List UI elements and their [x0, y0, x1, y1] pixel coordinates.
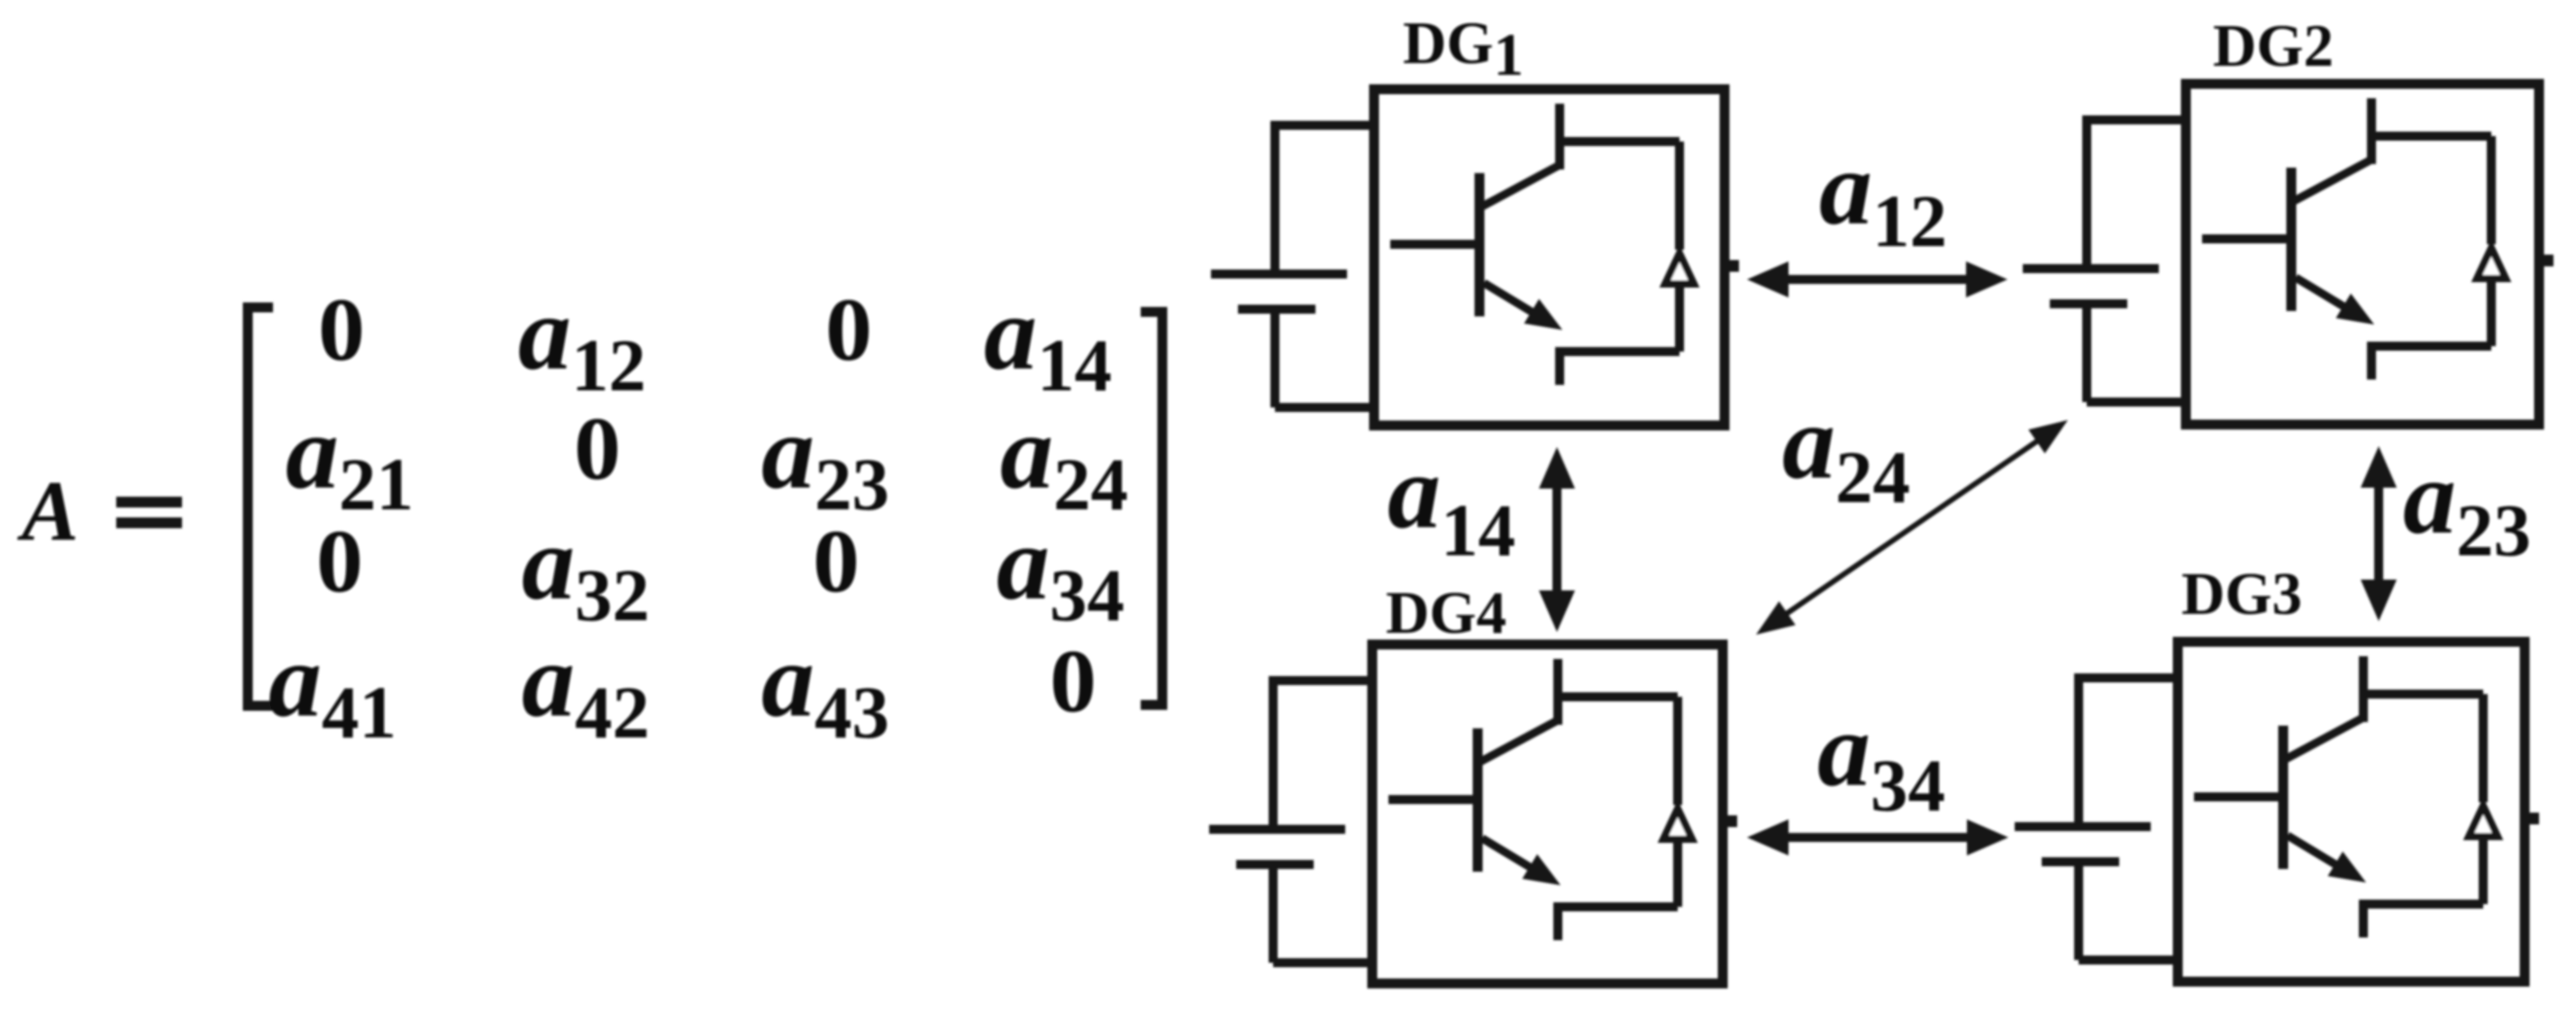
svg-text:0: 0 — [574, 398, 621, 498]
svg-text:a41: a41 — [269, 621, 396, 754]
svg-text:0: 0 — [825, 279, 872, 379]
diode D4 (DG4) — [1553, 697, 1692, 907]
wire: C2 loop to DG2 box — [2087, 115, 2189, 402]
matrix entry (4,3) = a43 — [761, 621, 889, 754]
svg-text:DG4: DG4 — [1386, 580, 1506, 646]
matrix entry (3,1) = 0 — [316, 511, 363, 611]
svg-text:DG2: DG2 — [2213, 13, 2334, 79]
matrix symbol A — [17, 463, 78, 559]
matrix entry (2,4) = a24 — [1000, 393, 1128, 526]
svg-text:a14: a14 — [984, 274, 1112, 407]
DG4 label — [1386, 580, 1506, 646]
node: DG1 output stub — [1725, 261, 1739, 272]
svg-text:a34: a34 — [1817, 690, 1945, 827]
label a12 — [1819, 129, 1947, 262]
diode D1 (DG1) — [1555, 142, 1694, 352]
wire: link a24 (DG2-DG4 double arrow) — [1756, 420, 2068, 635]
wire: link a14 (DG1-DG4 double arrow) — [1539, 447, 1575, 632]
node: DG2 output stub — [2539, 255, 2553, 267]
svg-text:a32: a32 — [522, 504, 650, 636]
svg-text:0: 0 — [316, 511, 363, 611]
label a34 — [1817, 690, 1945, 827]
transistor Q3 (DG3) — [2194, 656, 2366, 937]
wire: C3 loop to DG3 box — [2079, 673, 2181, 960]
capacitor C2 (DG2) — [2023, 269, 2159, 304]
transistor Q4 (DG4) — [1388, 659, 1561, 940]
matrix entry (4,1) = a41 — [269, 621, 396, 754]
svg-text:a43: a43 — [761, 621, 889, 754]
matrix entry (2,1) = a21 — [286, 393, 414, 526]
DG3 label — [2181, 561, 2302, 627]
svg-text:a42: a42 — [522, 621, 650, 754]
capacitor C1 (DG1) — [1211, 274, 1347, 309]
label a14 — [1388, 433, 1516, 572]
DG1 converter box — [1374, 89, 1725, 425]
svg-text:a23: a23 — [761, 393, 889, 526]
DG2 label — [2213, 13, 2334, 79]
matrix entry (3,4) = a34 — [997, 504, 1124, 636]
matrix entry (3,3) = 0 — [813, 511, 860, 611]
svg-text:a14: a14 — [1388, 433, 1516, 572]
matrix entry (1,1) = 0 — [318, 279, 365, 379]
DG1 label — [1403, 10, 1524, 88]
svg-text:0: 0 — [318, 279, 365, 379]
DG4 converter box — [1372, 645, 1723, 983]
diode D2 (DG2) — [2367, 136, 2506, 346]
wire: C4 loop to DG4 box — [1273, 676, 1376, 963]
node: DG4 output stub — [1723, 816, 1737, 828]
matrix entry (2,2) = 0 — [574, 398, 621, 498]
node: DG3 output stub — [2525, 813, 2539, 825]
transistor Q2 (DG2) — [2202, 98, 2374, 379]
svg-text:a21: a21 — [286, 393, 414, 526]
matrix left bracket — [248, 307, 273, 706]
matrix entry (1,2) = a12 — [518, 274, 646, 407]
wire: link a12 (DG1-DG2 double arrow) — [1747, 261, 2007, 297]
svg-text:0: 0 — [1050, 631, 1097, 731]
label a23 — [2403, 438, 2531, 572]
matrix entry (4,2) = a42 — [522, 621, 650, 754]
label a24 — [1782, 383, 1910, 518]
diode D3 (DG3) — [2359, 694, 2498, 904]
matrix entry (3,2) = a32 — [522, 504, 650, 636]
DG3 converter box — [2178, 642, 2525, 982]
svg-text:A: A — [17, 463, 78, 559]
equals sign — [116, 497, 182, 528]
transistor Q1 (DG1) — [1390, 104, 1562, 385]
wire: link a34 (DG4-DG3 double arrow) — [1747, 819, 2008, 855]
wire: link a23 (DG2-DG3 double arrow) — [2361, 446, 2397, 621]
matrix right bracket — [1141, 312, 1162, 705]
DG2 converter box — [2186, 84, 2539, 425]
svg-text:a23: a23 — [2403, 438, 2531, 572]
matrix entry (2,3) = a23 — [761, 393, 889, 526]
wire: C1 loop to DG1 box — [1275, 121, 1378, 407]
svg-text:0: 0 — [813, 511, 860, 611]
matrix entry (4,4) = 0 — [1050, 631, 1097, 731]
svg-text:DG1: DG1 — [1403, 10, 1524, 88]
svg-text:a12: a12 — [1819, 129, 1947, 262]
svg-text:a24: a24 — [1782, 383, 1910, 518]
capacitor C3 (DG3) — [2015, 827, 2151, 862]
matrix entry (1,3) = 0 — [825, 279, 872, 379]
capacitor C4 (DG4) — [1209, 829, 1345, 864]
matrix entry (1,4) = a14 — [984, 274, 1112, 407]
svg-text:DG3: DG3 — [2181, 561, 2302, 627]
svg-text:a12: a12 — [518, 274, 646, 407]
